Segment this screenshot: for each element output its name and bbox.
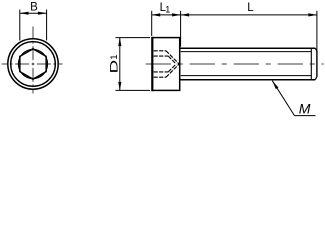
dimension B: right extension line xyxy=(46,10,48,41)
shaft bottom edge xyxy=(180,79,315,81)
dimension L: dimension line xyxy=(181,14,317,16)
dimension L1: left extension line xyxy=(151,11,153,36)
dimension D1: bottom arrowhead xyxy=(118,82,121,91)
dimension D1: top extension line xyxy=(116,37,151,39)
socket hidden line: lower outer flat xyxy=(154,76,166,78)
socket hidden line: upper outer flat xyxy=(154,50,166,52)
socket hidden line: lower outer cone xyxy=(166,64,179,77)
dimension L: right extension line xyxy=(316,11,318,52)
shaft end face xyxy=(316,51,318,77)
dimension D1: label (rotated) xyxy=(108,54,120,73)
thread callout M: leader line xyxy=(272,81,294,116)
dimension L1: left arrowhead xyxy=(152,13,161,16)
side view: head left face thick edge xyxy=(151,37,153,91)
thread callout M: leader underline xyxy=(295,115,316,117)
end view: horizontal centerline xyxy=(2,63,63,65)
end chamfer top diagonal xyxy=(315,48,317,51)
svg-text:B: B xyxy=(30,2,38,14)
end view: socket entry chamfer circle xyxy=(18,49,47,78)
svg-text:1: 1 xyxy=(165,5,170,15)
end view: hex socket xyxy=(20,49,46,79)
dimension L1: right arrowhead xyxy=(172,13,181,16)
socket hidden line: upper outer cone xyxy=(166,51,179,64)
socket hidden line: lower inner cone xyxy=(168,64,176,72)
screw axis centerline xyxy=(141,63,323,65)
socket hidden line: upper inner cone xyxy=(168,56,176,64)
end view: head outer circle xyxy=(8,39,58,89)
svg-text:D: D xyxy=(108,60,120,74)
dimension L: left arrowhead xyxy=(181,13,190,16)
dimension L1: dimension line xyxy=(152,14,181,16)
thread minor line bottom xyxy=(181,75,312,77)
svg-text:L: L xyxy=(247,2,254,14)
svg-text:1: 1 xyxy=(109,54,120,59)
socket hidden line: upper inner flat xyxy=(154,55,169,57)
end chamfer bottom diagonal xyxy=(315,77,317,80)
dimension B: right arrowhead xyxy=(38,12,47,15)
dimension D1: top arrowhead xyxy=(118,38,121,47)
side view: head outline xyxy=(152,38,179,91)
dimension B: dimension line xyxy=(20,12,47,14)
dimension B: left extension line xyxy=(19,10,21,41)
thread callout M: leader arrowhead xyxy=(272,81,278,89)
end view: head chamfer circle xyxy=(11,42,56,87)
svg-text:M: M xyxy=(299,101,311,117)
shaft top edge xyxy=(180,47,315,49)
dimension B: left arrowhead xyxy=(20,12,29,15)
dimension D1: bottom extension line xyxy=(116,89,151,91)
dimension L: right arrowhead xyxy=(308,13,317,16)
thread end chamfer start line xyxy=(310,48,312,79)
socket hidden line: lower inner flat xyxy=(154,71,169,73)
thread minor line top xyxy=(181,51,312,53)
end view: vertical centerline xyxy=(32,27,34,94)
dimension D1: dimension line xyxy=(119,38,121,91)
dimension L1/L: shared extension line xyxy=(180,11,182,47)
